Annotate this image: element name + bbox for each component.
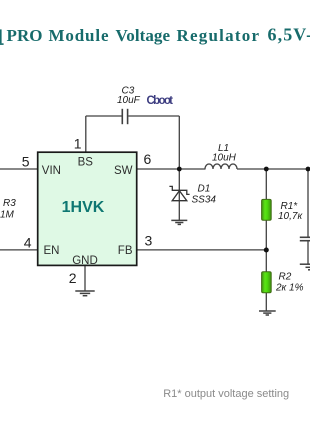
svg-text:FB: FB [118,245,133,257]
svg-text:3: 3 [145,233,153,249]
svg-text:R3: R3 [3,198,16,209]
svg-text:6,5V-: 6,5V- [268,25,311,45]
svg-text:1: 1 [74,136,82,152]
svg-text:1M: 1M [0,210,15,221]
svg-text:10uF: 10uF [117,95,141,106]
svg-text:GND: GND [72,255,98,267]
svg-text:Voltage: Voltage [116,26,171,45]
svg-text:BS: BS [78,157,94,169]
svg-text:SS34: SS34 [192,194,217,205]
svg-text:2: 2 [69,270,77,286]
svg-text:4: 4 [24,235,32,251]
svg-text:Cboot: Cboot [147,95,174,107]
svg-text:PRO: PRO [7,26,43,45]
svg-text:D1: D1 [198,184,211,195]
svg-text:5: 5 [22,154,30,170]
svg-text:EN: EN [44,245,60,257]
svg-text:R2: R2 [279,272,292,283]
svg-text:2к 1%: 2к 1% [275,283,304,294]
svg-text:10uH: 10uH [212,153,237,164]
svg-text:1HVK: 1HVK [62,199,105,216]
svg-text:Module: Module [49,26,109,45]
svg-text:SW: SW [114,165,133,177]
svg-text:VIN: VIN [42,165,61,177]
svg-text:6: 6 [144,151,152,167]
svg-text:R1* output voltage setting: R1* output voltage setting [163,388,289,400]
svg-text:10,7к: 10,7к [278,211,303,222]
